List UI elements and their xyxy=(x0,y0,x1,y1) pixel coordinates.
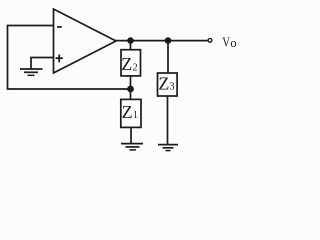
ground (non-inverting input) xyxy=(20,69,43,75)
output terminal circle xyxy=(208,38,212,42)
impedance Z2 xyxy=(121,50,141,76)
op-amp U1 xyxy=(54,9,117,73)
svg-text:Z: Z xyxy=(122,102,133,122)
wire non-inverting input to ground xyxy=(31,58,54,70)
svg-text:V: V xyxy=(222,36,230,51)
svg-text:1: 1 xyxy=(133,110,138,121)
ground (below Z1) xyxy=(121,144,143,150)
impedance Z1 xyxy=(121,99,141,127)
wire op-amp output to Vo terminal xyxy=(114,40,208,42)
impedance Z3 xyxy=(158,73,178,96)
svg-text:2: 2 xyxy=(133,62,138,73)
svg-text:Z: Z xyxy=(121,54,132,74)
wire feedback: inverting input to Z1/Z2 junction xyxy=(8,26,131,90)
svg-text:3: 3 xyxy=(170,82,175,93)
wire junction to Z1 xyxy=(130,89,132,100)
svg-text:o: o xyxy=(230,36,236,50)
node A (output / Z2 top) xyxy=(127,37,134,44)
node B (Z3 top) xyxy=(165,37,172,44)
ground (below Z3) xyxy=(158,145,178,151)
wire node A to Z2 xyxy=(130,41,132,50)
wire node B to Z3 xyxy=(167,41,169,74)
op-amp plus input symbol xyxy=(56,55,63,63)
svg-text:Z: Z xyxy=(158,74,169,94)
op-amp minus input symbol xyxy=(57,26,62,28)
wire Z1 to ground xyxy=(130,127,132,143)
junction node (Z1/Z2/feedback) xyxy=(127,86,134,93)
wire Z2 to junction xyxy=(130,76,132,89)
wire Z3 to ground xyxy=(167,96,169,145)
